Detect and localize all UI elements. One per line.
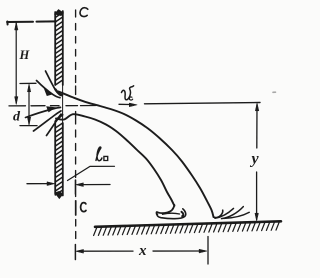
svg-text:d: d [13,110,21,125]
svg-text:x: x [138,243,147,259]
svg-text:y: y [250,151,260,168]
svg-text:H: H [19,48,31,62]
